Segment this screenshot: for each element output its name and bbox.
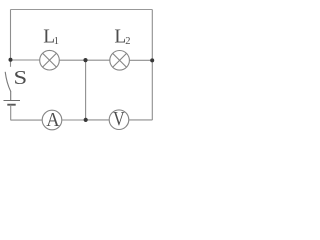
svg-text:V: V bbox=[113, 108, 125, 130]
lamp L2 bbox=[110, 51, 130, 71]
wire: bottom row, middle node to voltmeter bbox=[86, 119, 110, 121]
ammeter A bbox=[42, 110, 62, 130]
wire: blade to battery bbox=[10, 91, 12, 101]
wire: middle vertical bbox=[85, 60, 87, 120]
wire: battery to bottom-left corner bbox=[10, 105, 12, 120]
wire: right vertical bbox=[151, 10, 153, 121]
node: right junction bbox=[150, 58, 154, 62]
wire: lamp row right segment bbox=[129, 59, 152, 61]
battery long plate (+) bbox=[4, 100, 21, 102]
battery short plate (-) bbox=[7, 104, 15, 106]
wire: bottom row, corner to ammeter bbox=[11, 119, 43, 121]
wire: lamp row left segment bbox=[11, 59, 40, 61]
wire: bottom row, ammeter to middle node bbox=[62, 119, 86, 121]
wire: bottom row, voltmeter to corner bbox=[129, 119, 153, 121]
lamp L1 bbox=[40, 50, 60, 70]
svg-text:S: S bbox=[13, 66, 27, 89]
node: left junction bbox=[9, 58, 13, 62]
node: middle bottom junction bbox=[84, 118, 88, 122]
switch S blade bbox=[5, 72, 11, 92]
svg-text:A: A bbox=[46, 109, 59, 131]
node: middle top junction bbox=[83, 58, 87, 62]
wire: top horizontal bbox=[11, 9, 153, 11]
svg-text:2: 2 bbox=[125, 36, 130, 47]
wire: left vertical upper segment bbox=[10, 10, 12, 67]
svg-text:1: 1 bbox=[54, 36, 59, 47]
wire: lamp row middle segment bbox=[59, 59, 109, 61]
voltmeter V bbox=[109, 110, 129, 130]
